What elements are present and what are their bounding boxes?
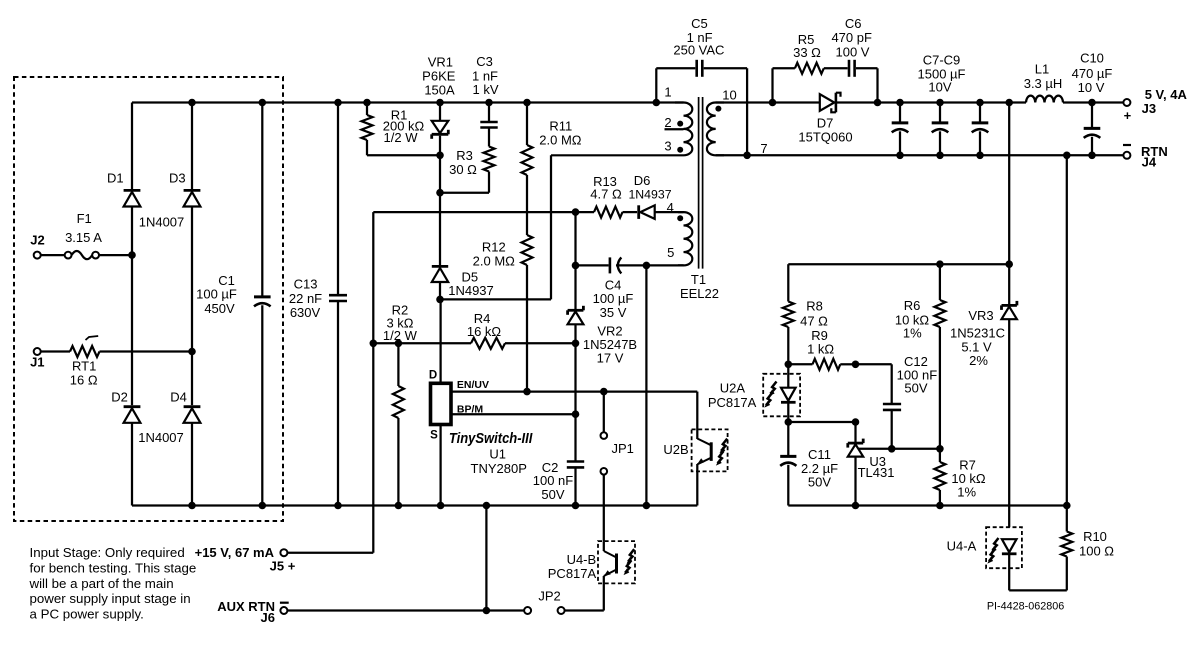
transformer pin 2 stub: [665, 128, 684, 130]
wire U1 source to rail: [439, 424, 441, 505]
svg-text:PC817A: PC817A: [548, 566, 597, 581]
optocoupler U2B: [692, 429, 728, 471]
svg-text:100 Ω: 100 Ω: [1079, 544, 1114, 559]
node R7 bottom: [936, 502, 944, 510]
node R2 bottom: [395, 502, 403, 510]
svg-text:S: S: [430, 430, 438, 442]
svg-text:VR3: VR3: [968, 308, 993, 323]
svg-text:3.15 A: 3.15 A: [65, 230, 102, 245]
svg-text:D3: D3: [169, 171, 186, 186]
svg-text:2.0 MΩ: 2.0 MΩ: [539, 132, 582, 147]
optocoupler U2A: [763, 374, 800, 417]
node pin5 column bottom: [643, 502, 651, 510]
resistor R11: [523, 99, 531, 107]
svg-text:P6KE: P6KE: [422, 68, 456, 83]
node D3 top: [188, 99, 196, 107]
wire pin5: [646, 264, 683, 266]
node VR1/R3/D5 junction: [436, 189, 444, 197]
svg-text:BP/M: BP/M: [457, 404, 484, 416]
node R5 branch: [769, 99, 777, 107]
svg-text:C3: C3: [476, 54, 493, 69]
svg-text:5: 5: [667, 245, 674, 260]
fuse F1: [65, 252, 72, 259]
svg-text:C10: C10: [1080, 51, 1104, 66]
node ground/RTN riser junction: [1063, 502, 1071, 510]
wire J2 to F1: [41, 254, 65, 256]
resistor R8: [787, 264, 789, 301]
svg-text:47 Ω: 47 Ω: [800, 313, 828, 328]
capacitor C4: [576, 264, 609, 266]
node C12 bottom: [888, 445, 896, 453]
resistor R10: [1066, 506, 1068, 532]
capacitor C11: [787, 422, 789, 456]
node U2A cathode junction: [785, 418, 793, 426]
resistor R2: [397, 343, 399, 386]
svg-text:2%: 2%: [969, 353, 988, 368]
wire J5 to riser: [288, 552, 374, 554]
terminal J5: [280, 549, 287, 556]
svg-text:630V: 630V: [290, 305, 321, 320]
svg-text:J1: J1: [30, 355, 44, 370]
jumper JP2: [558, 607, 565, 614]
wire RTN rail: [716, 154, 1124, 156]
terminal J3: [1123, 99, 1130, 106]
wire RTN riser: [1066, 155, 1068, 505]
svg-text:D7: D7: [817, 116, 834, 131]
node RTN riser top: [1063, 152, 1071, 160]
transformer phasing dot pin2: [677, 121, 683, 127]
svg-text:U4-B: U4-B: [567, 552, 597, 567]
svg-text:3: 3: [664, 139, 671, 154]
node U3 top junction: [852, 418, 860, 426]
svg-text:F1: F1: [77, 211, 92, 226]
svg-text:D4: D4: [170, 390, 187, 405]
node VR2/C4/pin5 junction: [572, 262, 580, 270]
resistor R1: [363, 99, 371, 107]
svg-text:PC817A: PC817A: [708, 395, 757, 410]
svg-text:4.7 Ω: 4.7 Ω: [590, 186, 622, 201]
wire feedback riser: [1008, 103, 1010, 265]
wire U4-B to JP2: [565, 609, 604, 611]
svg-text:EEL22: EEL22: [680, 286, 719, 301]
svg-text:C13: C13: [294, 277, 318, 292]
inductor L1: [1026, 96, 1063, 103]
svg-text:10: 10: [722, 88, 736, 103]
node U3 bottom: [852, 502, 860, 510]
node C1 bottom: [259, 502, 267, 510]
svg-text:1N4937: 1N4937: [448, 283, 494, 298]
node D5 anode / drain node: [436, 296, 444, 304]
node C13 top: [334, 99, 342, 107]
terminal J6: [280, 607, 287, 614]
wire HV top rail: [132, 101, 684, 103]
node AUX riser top: [483, 502, 491, 510]
svg-text:2: 2: [664, 115, 671, 130]
node F1/D1/D2 junction: [128, 251, 136, 259]
svg-text:22 nF: 22 nF: [289, 291, 322, 306]
wire VR2 column to BP/M: [574, 343, 576, 414]
svg-text:C11: C11: [808, 447, 831, 462]
svg-text:16 Ω: 16 Ω: [70, 373, 98, 388]
svg-text:TL431: TL431: [858, 465, 895, 480]
jumper JP1: [603, 392, 605, 433]
wire +15V riser to R13 node: [372, 212, 374, 553]
svg-text:R8: R8: [806, 299, 823, 314]
transformer T1 primary winding pins 1-2-3: [551, 103, 692, 156]
wire RT1 to D3/D4 column: [100, 350, 193, 352]
wire J1 to RT1: [41, 350, 70, 352]
diode D4: [191, 352, 193, 406]
wire BP/M: [450, 413, 576, 415]
wire R9 to C12: [856, 363, 892, 365]
svg-text:470 pF: 470 pF: [831, 30, 872, 45]
svg-text:J2: J2: [30, 233, 44, 248]
resistor R3: [484, 147, 495, 172]
svg-text:250 VAC: 250 VAC: [673, 43, 724, 58]
svg-text:150A: 150A: [424, 82, 455, 97]
transformer T1 bias winding pins 4-5: [678, 212, 692, 265]
svg-text:U2B: U2B: [663, 442, 688, 457]
transformer T1 secondary winding pins 10-7: [707, 103, 724, 156]
transformer T1 core: [698, 97, 700, 269]
svg-text:15TQ060: 15TQ060: [798, 129, 852, 144]
capacitor C3: [485, 99, 493, 107]
node C6 return: [874, 99, 882, 107]
wire feedback ground rail: [788, 504, 1067, 506]
node feedback riser top: [1005, 99, 1013, 107]
svg-text:J5 +: J5 +: [270, 559, 296, 574]
wire VR2 column upper: [574, 212, 576, 265]
svg-text:1N5231C: 1N5231C: [950, 326, 1005, 341]
svg-text:10 V: 10 V: [1078, 80, 1105, 95]
svg-text:power supply input stage in: power supply input stage in: [30, 591, 191, 606]
node C4/pin5 column junction: [643, 262, 651, 270]
svg-text:1/2 W: 1/2 W: [384, 130, 419, 145]
capacitor C5: [653, 99, 661, 107]
svg-text:50V: 50V: [541, 487, 564, 502]
node R6 top: [936, 260, 944, 268]
svg-text:2.0 MΩ: 2.0 MΩ: [473, 253, 516, 268]
svg-text:30 Ω: 30 Ω: [449, 162, 477, 177]
svg-text:7: 7: [760, 141, 767, 156]
svg-text:1N4007: 1N4007: [139, 215, 185, 230]
svg-text:1N4937: 1N4937: [628, 187, 671, 201]
wire U4-A bottom: [1009, 589, 1067, 591]
wire +5V rail left: [716, 101, 820, 103]
svg-text:J3: J3: [1142, 101, 1156, 116]
svg-text:+: +: [1124, 108, 1132, 123]
resistor R6: [939, 264, 941, 300]
node C1 top: [259, 99, 267, 107]
node U1 source bottom: [437, 502, 445, 510]
svg-text:450V: 450V: [204, 301, 235, 316]
node C5 right leg to RTN: [743, 152, 751, 160]
svg-text:33 Ω: 33 Ω: [793, 45, 821, 60]
diode D3: [191, 103, 193, 190]
transformer phasing dot pin4: [677, 215, 683, 221]
svg-text:J6: J6: [261, 610, 275, 625]
capacitor C12: [883, 403, 901, 406]
svg-text:D2: D2: [111, 390, 128, 405]
svg-text:TinySwitch-III: TinySwitch-III: [449, 430, 533, 447]
capacitor C1: [261, 103, 263, 297]
wire feedback top rail: [788, 263, 1009, 265]
svg-text:1%: 1%: [903, 326, 922, 341]
shunt regulator U3 TL431: [854, 422, 856, 442]
svg-text:3.3 µH: 3.3 µH: [1024, 76, 1063, 91]
svg-text:C5: C5: [691, 16, 708, 31]
svg-text:R11: R11: [549, 118, 572, 133]
resistor R4: [370, 340, 378, 348]
node EN/UV R12 junction: [523, 388, 531, 396]
diode D1: [131, 103, 133, 190]
capacitor C13: [337, 103, 339, 295]
capacitor C10: [1088, 99, 1096, 107]
wire primary ground rail: [132, 504, 697, 506]
wire U2A cathode to U3: [788, 421, 855, 423]
wire F1 to node: [99, 254, 132, 256]
wire transformer pin3 to D5 node: [550, 155, 552, 299]
svg-text:PI-4428-062806: PI-4428-062806: [987, 601, 1064, 613]
svg-text:35 V: 35 V: [600, 305, 627, 320]
svg-text:1 kΩ: 1 kΩ: [807, 342, 834, 357]
node R9/U3 column junction: [852, 361, 860, 369]
svg-text:50V: 50V: [808, 475, 831, 490]
wire AUX riser to rail: [485, 506, 487, 611]
resistor R7: [939, 449, 941, 462]
svg-text:JP1: JP1: [611, 441, 633, 456]
diode D5: [432, 268, 448, 282]
svg-text:EN/UV: EN/UV: [457, 379, 489, 391]
diode D2: [131, 255, 133, 405]
svg-text:C7-C9: C7-C9: [923, 53, 961, 68]
zener VR2: [574, 265, 576, 309]
svg-text:16 kΩ: 16 kΩ: [467, 324, 502, 339]
diode D6: [640, 205, 654, 219]
svg-text:U2A: U2A: [720, 380, 746, 395]
svg-text:1/2 W: 1/2 W: [383, 328, 418, 343]
wire VR1 column to D5: [439, 155, 441, 192]
terminal J1: [34, 348, 41, 355]
svg-text:100 µF: 100 µF: [593, 291, 634, 306]
wire +5V rail after L1: [1063, 101, 1123, 103]
transformer phasing dot pin3: [677, 147, 683, 153]
svg-text:JP2: JP2: [538, 589, 560, 604]
svg-text:T1: T1: [691, 272, 706, 287]
node R6/R7/ref junction: [936, 445, 944, 453]
node AUX riser junction: [483, 607, 491, 615]
wire +5V rail right: [837, 101, 1026, 103]
op-amp U1 TinySwitch body: [431, 383, 452, 424]
node VR2/R4 junction: [572, 340, 580, 348]
svg-text:a PC power supply.: a PC power supply.: [30, 607, 144, 622]
diode D7 schottky: [820, 94, 835, 111]
thermistor RT1: [70, 346, 100, 357]
zener VR3: [1008, 264, 1010, 304]
capacitor C2: [574, 414, 576, 461]
wire R13 feed: [373, 211, 594, 213]
wire AUX RTN: [287, 609, 524, 611]
svg-text:R12: R12: [482, 240, 506, 255]
node EN/UV JP1 junction: [600, 388, 608, 396]
svg-text:5 V, 4A: 5 V, 4A: [1145, 87, 1188, 102]
terminal J4: [1123, 152, 1130, 159]
svg-text:D1: D1: [107, 171, 124, 186]
transformer phasing dot pin10: [715, 106, 721, 112]
node BP/M junction: [572, 410, 580, 418]
svg-text:R6: R6: [904, 298, 921, 313]
svg-text:+15 V, 67 mA: +15 V, 67 mA: [195, 545, 275, 560]
node R8/R9/U2A junction: [785, 361, 793, 369]
svg-text:L1: L1: [1035, 61, 1049, 76]
resistor R9: [788, 363, 812, 365]
svg-text:100 nF: 100 nF: [533, 473, 574, 488]
input stage dashed box: [14, 77, 283, 521]
optocoupler U4-B: [598, 541, 635, 583]
wire U3 ref: [859, 448, 940, 450]
svg-text:D: D: [429, 370, 437, 382]
svg-text:10V: 10V: [928, 80, 951, 95]
svg-text:TNY280P: TNY280P: [471, 461, 527, 476]
optocoupler U4-A: [986, 527, 1022, 568]
capacitor C8: [936, 99, 944, 107]
svg-text:100 µF: 100 µF: [196, 286, 237, 301]
svg-text:1 kV: 1 kV: [472, 82, 498, 97]
wire EN/UV: [450, 390, 697, 392]
svg-text:U1: U1: [489, 446, 506, 461]
resistor R13: [594, 207, 623, 218]
svg-text:Input Stage: Only required: Input Stage: Only required: [30, 545, 185, 560]
wire drain node to U1 drain: [439, 299, 441, 383]
svg-text:17 V: 17 V: [597, 351, 624, 366]
svg-text:4: 4: [667, 200, 674, 215]
svg-text:J4: J4: [1142, 154, 1157, 169]
svg-text:VR1: VR1: [428, 55, 453, 70]
node RT1/D3/D4 junction: [188, 348, 196, 356]
resistor R12: [526, 175, 528, 235]
svg-text:100 V: 100 V: [836, 44, 870, 59]
node feedback riser bottom: [1005, 260, 1013, 268]
svg-text:1N4007: 1N4007: [138, 430, 184, 445]
node C2 bottom: [572, 502, 580, 510]
node D4 bottom: [188, 502, 196, 510]
capacitor C6: [848, 60, 851, 77]
label RTN J4: [1123, 144, 1131, 146]
svg-text:D6: D6: [634, 173, 651, 188]
capacitor C9: [976, 99, 984, 107]
svg-text:1: 1: [664, 85, 671, 100]
svg-text:470 µF: 470 µF: [1072, 66, 1113, 81]
svg-text:1%: 1%: [957, 484, 976, 499]
zener VR1: [436, 99, 444, 107]
svg-text:50V: 50V: [904, 380, 927, 395]
svg-text:will be a part of the main: will be a part of the main: [29, 576, 174, 591]
svg-text:RT1: RT1: [72, 359, 96, 374]
node C13 bottom: [334, 502, 342, 510]
svg-text:U4-A: U4-A: [947, 539, 977, 554]
node VR1/R1 junction: [436, 152, 444, 160]
terminal J2: [34, 252, 41, 259]
node R2 top junction: [395, 340, 403, 348]
svg-text:for bench testing. This stage: for bench testing. This stage: [30, 560, 197, 575]
resistor R5: [771, 68, 773, 102]
node R13/VR2 column junction: [572, 208, 580, 216]
capacitor C7: [896, 99, 904, 107]
svg-text:R10: R10: [1083, 529, 1107, 544]
svg-text:R3: R3: [456, 148, 473, 163]
wire pin5 column to rail: [645, 265, 647, 505]
svg-text:C6: C6: [845, 16, 862, 31]
